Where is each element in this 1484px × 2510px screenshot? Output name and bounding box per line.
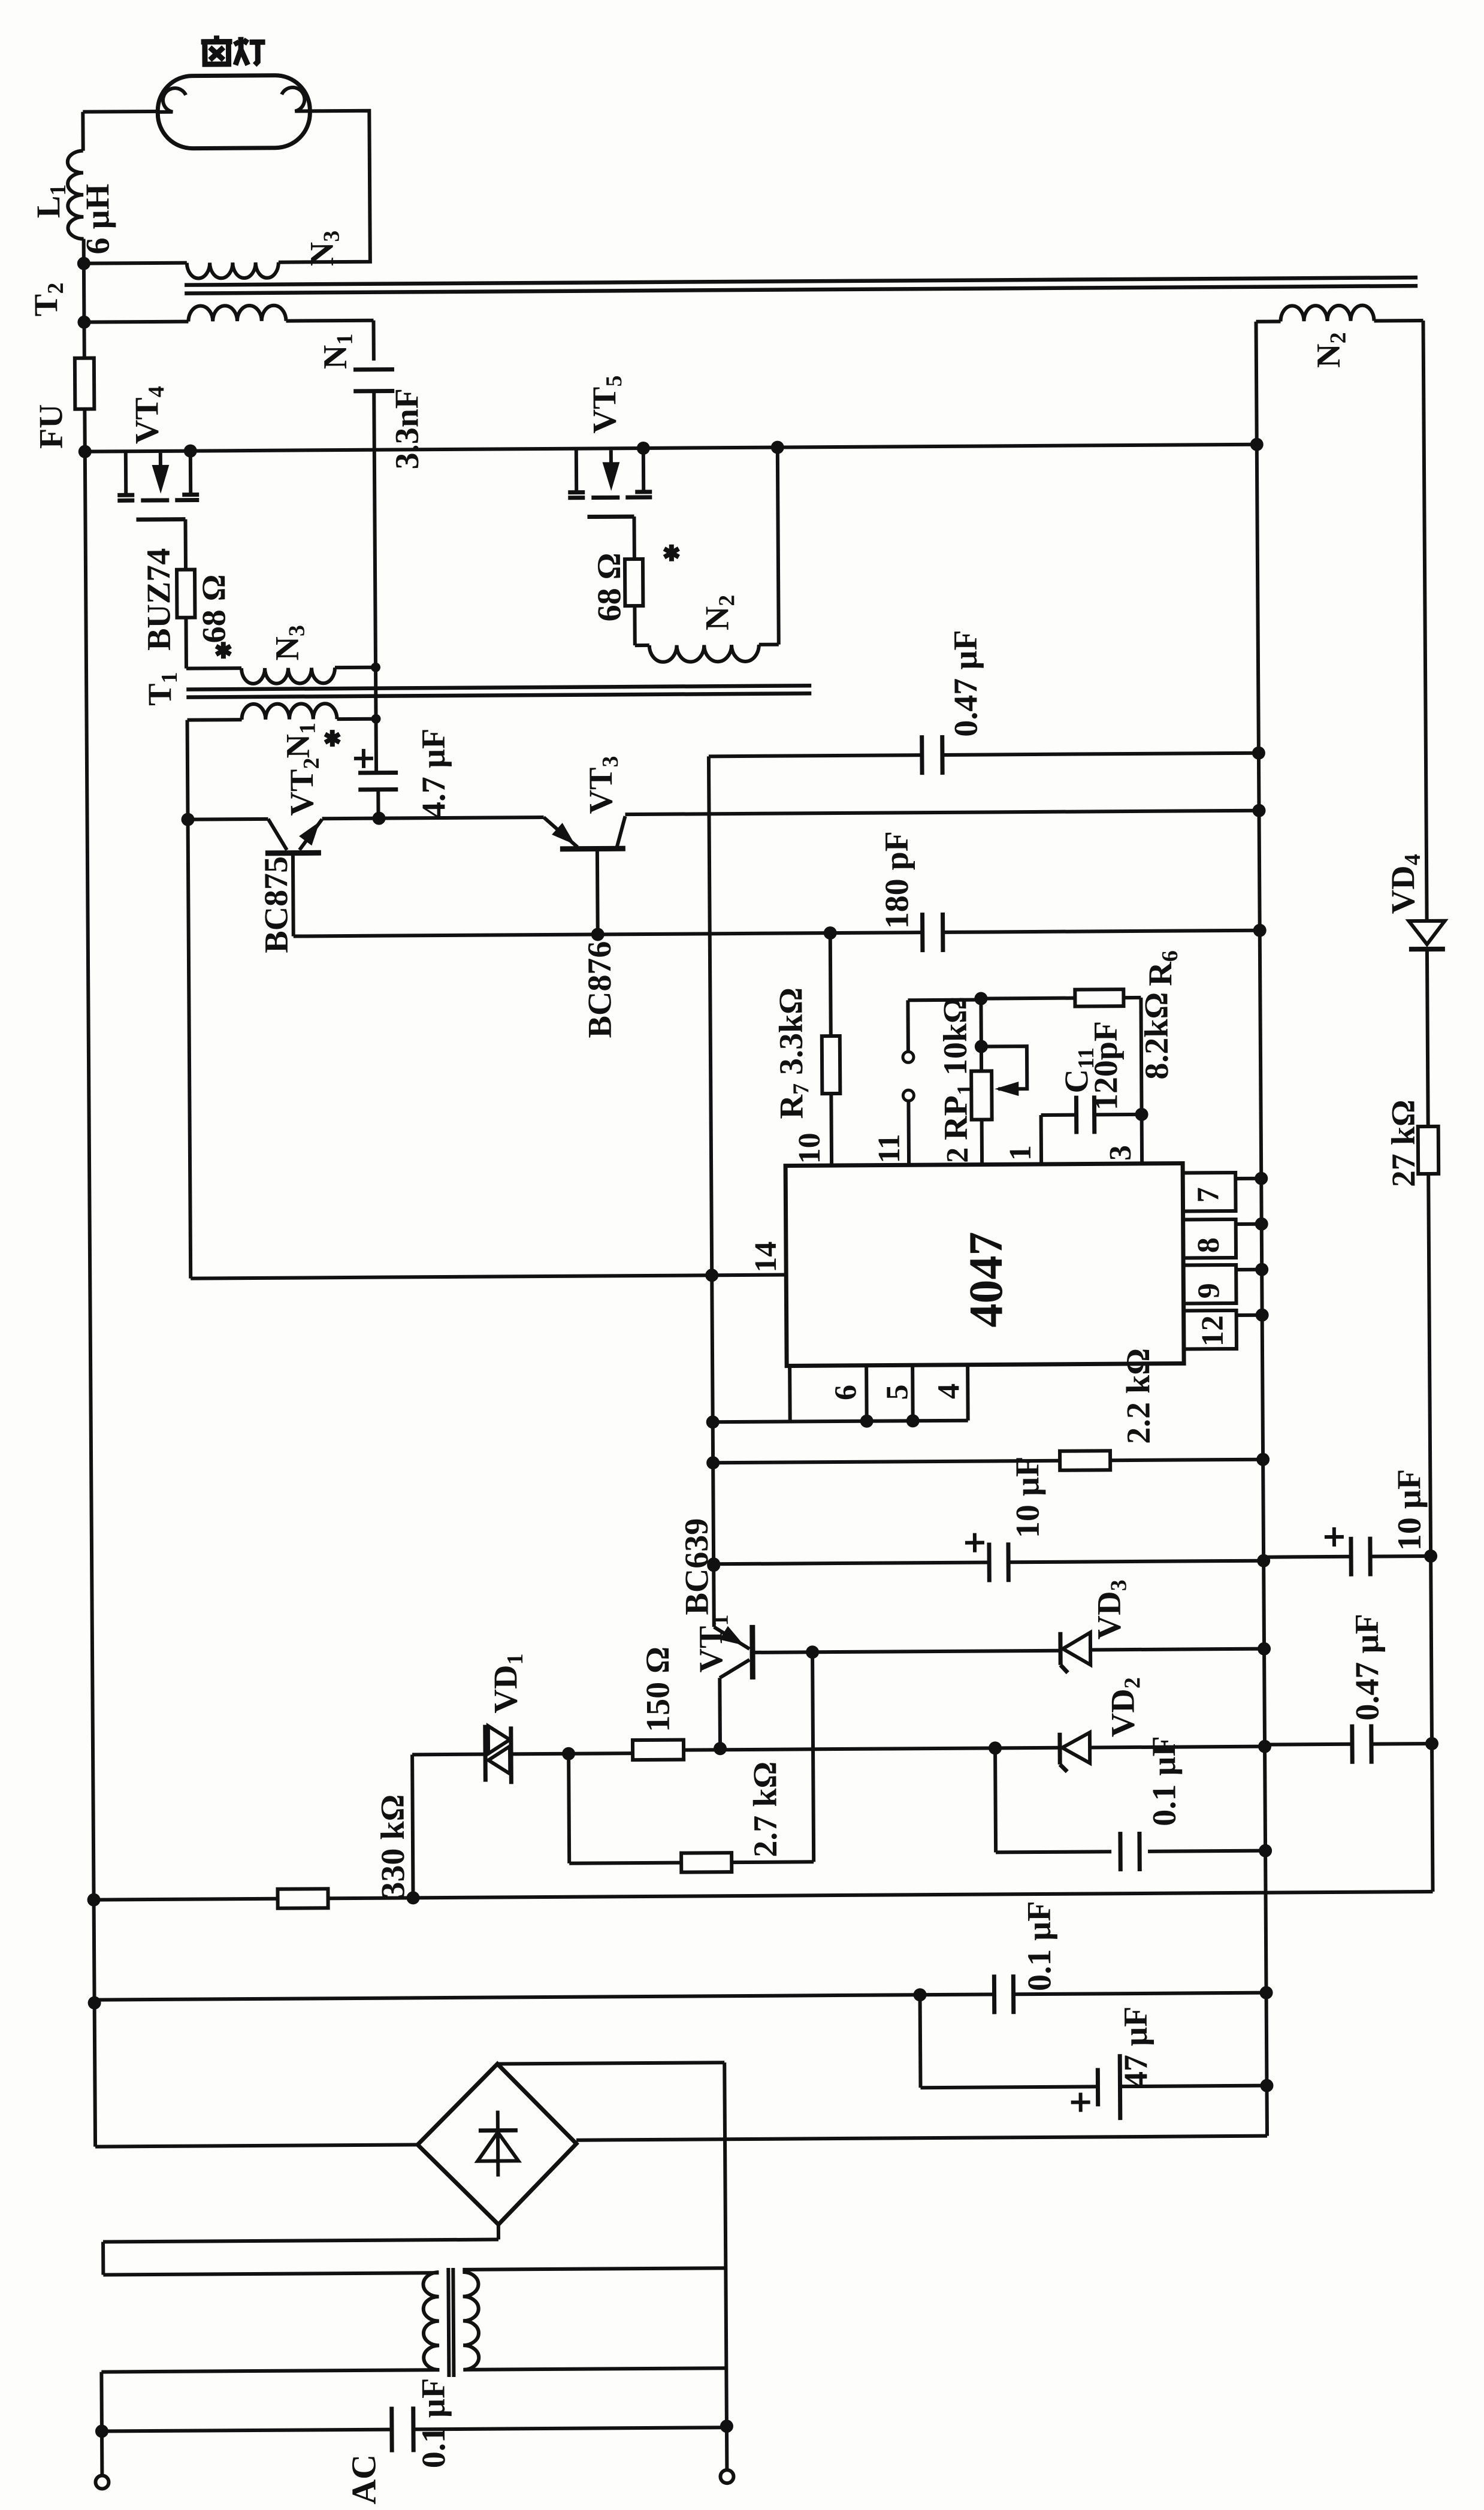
- transformer T2 core: [185, 277, 1417, 285]
- asterisk N1-T1: [330, 730, 335, 747]
- node tab7 bus: [1255, 1172, 1268, 1185]
- wire VT5 gate to 68ohm: [632, 517, 636, 559]
- wire 68ohm to N3-T1: [184, 618, 188, 669]
- wire choke left top: [103, 2273, 439, 2275]
- plus 10uF left: [965, 1541, 984, 1545]
- node junction rail/drain-rail: [78, 445, 92, 458]
- node tab8 bus: [1255, 1218, 1268, 1231]
- label Chinese halogen-lamp char1: [201, 35, 232, 64]
- wire choke left bottom: [101, 2370, 439, 2372]
- resistor R7 3.3k: [822, 1036, 841, 1094]
- wire mid bus vertical: [1257, 445, 1267, 2136]
- mosfet VT4 gate bar: [136, 517, 185, 522]
- mosfet VT5 gate bar: [587, 515, 634, 519]
- transistor VT2 base bar: [265, 850, 321, 856]
- switch contact lower: [903, 1090, 914, 1101]
- ic pin tab 8: [1183, 1219, 1236, 1258]
- node pin3/C11: [1135, 1108, 1148, 1121]
- wire 4.7uF to VT2 rail: [376, 790, 380, 818]
- capacitor 47uF electrolytic: [1096, 2068, 1100, 2106]
- mosfet VT5 channel (dashed): [568, 496, 585, 500]
- mosfet VT5 source lead: [642, 448, 645, 491]
- terminal AC left: [95, 2475, 108, 2488]
- node VT1 base / 2.7k: [806, 1645, 819, 1659]
- plus 47uF: [1071, 2100, 1090, 2104]
- svg-text:10 µF: 10 µF: [1391, 1469, 1428, 1551]
- capacitor 10uF left: [987, 1542, 991, 1582]
- svg-text:1: 1: [1004, 1145, 1038, 1161]
- winding N1 of T1: [241, 703, 337, 720]
- wire VT4 gate to 68ohm: [183, 519, 188, 570]
- wire R6 left: [981, 996, 1075, 1001]
- svg-text:180 pF: 180 pF: [878, 831, 916, 929]
- svg-text:120pF: 120pF: [1087, 1021, 1125, 1111]
- node VD3 mid bus: [1258, 1642, 1271, 1656]
- wire VT2 base down: [291, 853, 295, 937]
- node VT1 emitter / 150ohm line: [714, 1742, 727, 1755]
- svg-text:5: 5: [880, 1384, 914, 1400]
- svg-text:0.1 µF: 0.1 µF: [415, 2378, 452, 2469]
- svg-text:0.1 µF: 0.1 µF: [1146, 1736, 1183, 1826]
- svg-text:6: 6: [829, 1385, 863, 1400]
- resistor 2.7k: [681, 1853, 732, 1872]
- bridge internal diode: [496, 2111, 500, 2177]
- node 0.1uF branch: [989, 1741, 1002, 1754]
- winding N2 of T1: [649, 645, 759, 662]
- wire lamp right to N3 of T2: [277, 111, 370, 262]
- wire 0.47uF line: [709, 755, 923, 756]
- transistor VT2 collector wire+slant: [188, 817, 268, 821]
- wire pin2 to RP1: [980, 1120, 984, 1165]
- node 10uF-left mid bus: [1257, 1554, 1270, 1567]
- svg-text:RP1​ 10kΩ: RP1​ 10kΩ: [936, 996, 978, 1140]
- transistor VT2 emitter slant+arrow: [300, 819, 322, 850]
- wire right bus VD4 to 27k: [1427, 949, 1428, 1126]
- node VT3 line mid bus: [1252, 804, 1265, 817]
- mosfet VT5 substrate arrow: [609, 450, 613, 480]
- wire 47uF branch: [918, 1995, 923, 2088]
- wire VT3 collector line to mid bus: [625, 811, 1259, 814]
- svg-text:BUZ74: BUZ74: [140, 548, 178, 651]
- ic pin tab 9: [1183, 1265, 1236, 1304]
- wire 0.1uF mid line: [995, 1748, 996, 1852]
- svg-text:68 Ω: 68 Ω: [591, 552, 628, 621]
- resistor 68ohm (VT4 gate): [177, 570, 195, 618]
- wire VT2 emitter to VT3: [322, 817, 544, 818]
- label Chinese halogen-lamp char2: [235, 37, 265, 65]
- node RP1 wiper tie: [975, 1040, 988, 1053]
- wire 3.3nF down crossing drain rail to T1 node: [374, 391, 376, 719]
- node 0.47uF right bus: [1425, 1737, 1438, 1750]
- wire 47uF right: [1120, 2086, 1267, 2086]
- capacitor 0.1uF mid: [1118, 1832, 1122, 1871]
- wire VD1 branch up: [412, 1754, 413, 1898]
- winding N3 of T2: [84, 263, 187, 264]
- choke right winding: [463, 2272, 479, 2370]
- wire R6 right to pin3: [1123, 996, 1141, 999]
- node right AC 0.1uF: [720, 2420, 733, 2433]
- node pin14/left bus: [705, 1268, 718, 1282]
- wire left bus: [709, 756, 714, 1627]
- plus 4.7uF: [354, 757, 373, 760]
- svg-text:27 kΩ: 27 kΩ: [1385, 1100, 1422, 1187]
- wire right bus 27k down: [1428, 1174, 1432, 1892]
- mosfet VT4 drain lead: [124, 451, 128, 494]
- winding N1 of T2: [84, 322, 188, 322]
- node 2.2k left bus: [706, 1456, 720, 1469]
- node VD1 output: [562, 1747, 575, 1760]
- diac VD1 upper triangle: [488, 1726, 510, 1753]
- plus 10uF right: [1325, 1535, 1344, 1539]
- wire AC 0.1uF line: [102, 2430, 392, 2432]
- svg-text:47 µF: 47 µF: [1117, 2006, 1155, 2088]
- wire choke right top: [463, 2268, 726, 2270]
- wire VD1 to 150ohm: [511, 1753, 633, 1754]
- wire pins654 line: [713, 1421, 968, 1422]
- wire left rail L1 to T2 windings: [82, 239, 86, 322]
- halogen lamp (rounded tube): [158, 75, 310, 149]
- svg-text:10 µF: 10 µF: [1009, 1456, 1047, 1538]
- transistor VT3 collector slant: [617, 816, 625, 847]
- transistor VT1 base lead: [752, 1651, 1060, 1653]
- choke core: [448, 2268, 449, 2377]
- wire VT3 base down: [596, 848, 600, 934]
- node 2.2k mid bus: [1256, 1453, 1270, 1466]
- svg-text:2.2 kΩ: 2.2 kΩ: [1120, 1348, 1157, 1444]
- resistor 2.2k: [1060, 1451, 1110, 1470]
- node pin4 tie: [906, 1414, 920, 1427]
- ic pin tab 7: [1183, 1173, 1235, 1212]
- node 47uF branch: [913, 1988, 926, 2001]
- diac VD1 bars: [483, 1725, 488, 1782]
- wire left AC vertical: [101, 2372, 102, 2475]
- winding N3 of T1: [241, 667, 335, 684]
- wire right bus top: [1423, 321, 1426, 921]
- wire pin11 to switch: [906, 1101, 911, 1165]
- resistor 330k: [277, 1889, 328, 1908]
- fuse FU: [75, 358, 95, 409]
- inductor L1 (6uH) on left rail: [68, 151, 84, 239]
- wire left rail FU to 330k line: [85, 452, 95, 2147]
- svg-text:R7​ 3.3kΩ: R7​ 3.3kΩ: [772, 987, 814, 1119]
- mosfet VT5 drain lead: [575, 449, 578, 491]
- svg-text:AC: AC: [344, 2454, 383, 2505]
- svg-text:0.1 µF: 0.1 µF: [1021, 1901, 1059, 1991]
- capacitor 180pF: [920, 913, 924, 952]
- node 4.7uF rail: [372, 812, 385, 825]
- wire 10uF-right line: [1264, 1555, 1351, 1559]
- node VD1 branch: [406, 1891, 419, 1904]
- capacitor 0.1uF bottom: [992, 1974, 996, 2014]
- diode VD2 triangle: [1062, 1732, 1090, 1763]
- transistor VT3 emitter slant+arrow: [544, 817, 578, 847]
- node pin5 tie: [860, 1415, 874, 1428]
- diode VD3 triangle: [1063, 1632, 1090, 1665]
- diode VD2 cathode bar: [1057, 1733, 1062, 1765]
- mosfet VT4 substrate arrow: [159, 453, 162, 483]
- node N3-T1 right: [371, 663, 380, 672]
- wire right AC vertical: [724, 2062, 727, 2469]
- node VD2 mid bus: [1258, 1740, 1271, 1753]
- wire N1-T1 left vertical: [188, 720, 191, 1279]
- transistor VT1 emitter slant: [720, 1660, 749, 1678]
- svg-text:7: 7: [1191, 1187, 1225, 1203]
- resistor 27k: [1418, 1126, 1438, 1174]
- bridge rectifier diamond: [417, 2064, 577, 2225]
- svg-text:12: 12: [1196, 1315, 1230, 1346]
- mosfet VT4 source lead: [189, 451, 192, 494]
- transformer T1 core: [186, 685, 811, 689]
- node 10uF-left bus: [707, 1557, 720, 1570]
- wire N2-T1 right to rail: [778, 448, 779, 645]
- diac VD1 lower triangle: [488, 1746, 510, 1774]
- node junction rail/N3: [77, 257, 90, 270]
- wire 0.1uF bottom line: [95, 1994, 995, 1999]
- node left AC 0.1uF: [95, 2424, 108, 2437]
- transistor VT3 base bar: [560, 846, 625, 852]
- node VT3 base on base line: [591, 928, 605, 941]
- diode VD4: [1409, 921, 1445, 944]
- wire choke right bottom: [463, 2368, 726, 2370]
- capacitor 10uF right: [1349, 1537, 1353, 1576]
- wire RP1 top: [979, 999, 983, 1071]
- node N1-T1 right: [371, 714, 380, 724]
- wire C11 right: [1094, 1113, 1142, 1116]
- lamp right electrode: [282, 87, 310, 111]
- capacitor 4.7uF electrolytic: [358, 771, 398, 775]
- wire switch up to pot node: [906, 1000, 910, 1052]
- capacitor 0.47uF (top): [920, 735, 924, 775]
- wire base line VT2-to-bus: [294, 932, 922, 936]
- asterisk N2-T1: [669, 545, 674, 561]
- svg-text:BC876: BC876: [581, 941, 619, 1038]
- node 0.47uF mid bus: [1252, 747, 1265, 760]
- wire VD1 input: [412, 1753, 485, 1757]
- capacitor 0.1uF AC: [389, 2407, 394, 2452]
- wire 68ohm to N2-T1: [633, 606, 636, 645]
- wire pin14 horizontal: [191, 1275, 786, 1279]
- svg-text:14: 14: [749, 1242, 783, 1273]
- wire 0.47uF-right line: [1265, 1742, 1352, 1747]
- wire VD3 line right: [1090, 1649, 1264, 1650]
- node 0.1uF-bottom left rail: [88, 1996, 101, 2010]
- wire pin1 to C11: [1039, 1115, 1044, 1164]
- node VT1 collector: [707, 1558, 720, 1572]
- wire 330k line: [94, 1899, 278, 1900]
- svg-text:0.47 µF: 0.47 µF: [1349, 1614, 1386, 1721]
- svg-text:3: 3: [1104, 1145, 1138, 1161]
- svg-text:2: 2: [941, 1147, 975, 1163]
- wire bridge AC top to right vertical: [497, 2062, 724, 2064]
- svg-text:150 Ω: 150 Ω: [639, 1647, 677, 1732]
- svg-text:8: 8: [1192, 1237, 1226, 1253]
- svg-text:2.7 kΩ: 2.7 kΩ: [746, 1762, 784, 1857]
- svg-text:68 Ω: 68 Ω: [195, 574, 233, 643]
- node 330k line left rail: [87, 1893, 100, 1907]
- node R7 tap: [824, 926, 837, 940]
- node 10uF-right bus: [1424, 1550, 1437, 1563]
- node VT5 source on rail: [637, 442, 650, 455]
- svg-text:4047: 4047: [960, 1231, 1013, 1328]
- svg-text:4.7 µF: 4.7 µF: [415, 728, 453, 818]
- lamp left electrode: [158, 88, 186, 112]
- ic pins 6 5 4 comb: [788, 1366, 792, 1422]
- wire VD2 right to bus: [1090, 1747, 1265, 1748]
- mosfet VT4 channel (dashed): [117, 499, 134, 503]
- wire 2.7k to VT1 base: [732, 1860, 814, 1864]
- node base line mid bus: [1253, 924, 1267, 937]
- svg-text:0.47 µF: 0.47 µF: [947, 630, 985, 737]
- wire bridge minus to left rail: [95, 2144, 418, 2146]
- node VT2 collector rail: [181, 813, 194, 826]
- wire 10uF-left line: [714, 1562, 989, 1564]
- svg-text:3.3nF: 3.3nF: [388, 388, 426, 470]
- asterisk N3-T1: [221, 642, 226, 659]
- capacitor 0.47uF right: [1350, 1724, 1354, 1764]
- wire bridge AC bottom jog: [497, 2225, 500, 2240]
- node RP1 top / R6: [974, 992, 987, 1005]
- wire bridge plus to mid bus: [576, 2136, 1267, 2140]
- ic 4047 box: [785, 1164, 1184, 1366]
- choke left winding: [423, 2272, 439, 2370]
- wire mid-bus to N2-T2: [1256, 322, 1257, 445]
- pot RP1 wiper arm: [981, 1046, 1027, 1089]
- svg-text:11: 11: [872, 1134, 906, 1163]
- transistor VT1 collector slant+arrow: [714, 1627, 749, 1649]
- potentiometer RP1 10k body: [971, 1071, 992, 1119]
- node 47uF bus: [1260, 2079, 1273, 2092]
- winding N2 of T2: [1256, 319, 1281, 323]
- svg-text:FU: FU: [32, 404, 69, 449]
- switch contact upper: [903, 1052, 914, 1062]
- capacitor 3.3nF: [353, 367, 394, 371]
- resistor 68ohm (VT5 gate): [625, 559, 643, 606]
- wire 150ohm to VT1/VD2: [684, 1748, 1060, 1750]
- node pins654 left bus: [706, 1415, 720, 1428]
- node 0.1uF bottom bus: [1259, 1986, 1273, 1999]
- node N2-T1 rail: [771, 441, 784, 454]
- ic pin tab 12: [1184, 1310, 1237, 1349]
- svg-text:4: 4: [932, 1384, 966, 1399]
- node VT4 source on rail: [184, 445, 197, 458]
- node junction rail/N1-T2: [77, 316, 90, 329]
- node tab12 bus: [1256, 1309, 1269, 1322]
- resistor 150ohm: [633, 1740, 684, 1760]
- node 0.1uF mid bus: [1259, 1844, 1272, 1857]
- svg-text:10: 10: [793, 1132, 827, 1164]
- terminal AC right: [720, 2470, 733, 2483]
- node drain rail / mid bus: [1250, 438, 1264, 451]
- svg-text:8.2kΩ: 8.2kΩ: [1138, 992, 1175, 1080]
- svg-text:330 kΩ: 330 kΩ: [374, 1794, 412, 1898]
- transistor VT1 base bar: [749, 1625, 755, 1680]
- wire T1-node down to 4.7uF: [374, 719, 379, 773]
- capacitor C11 120pF: [1074, 1096, 1078, 1134]
- node tab9 bus: [1255, 1263, 1268, 1276]
- wire pin10 R7: [830, 933, 831, 1036]
- wire drain rail: [85, 445, 1257, 452]
- svg-text:BC875: BC875: [258, 856, 295, 953]
- wire top rail segment lamp to L1: [83, 110, 158, 114]
- diode VD3 cathode bar: [1058, 1632, 1062, 1665]
- wire 2.2k line: [713, 1461, 1060, 1463]
- wire N1-T2 right down to 3.3nF: [371, 321, 375, 361]
- wire 2.7k loop: [569, 1754, 569, 1863]
- svg-text:9: 9: [1192, 1283, 1226, 1298]
- resistor R6 8.2k: [1075, 989, 1123, 1006]
